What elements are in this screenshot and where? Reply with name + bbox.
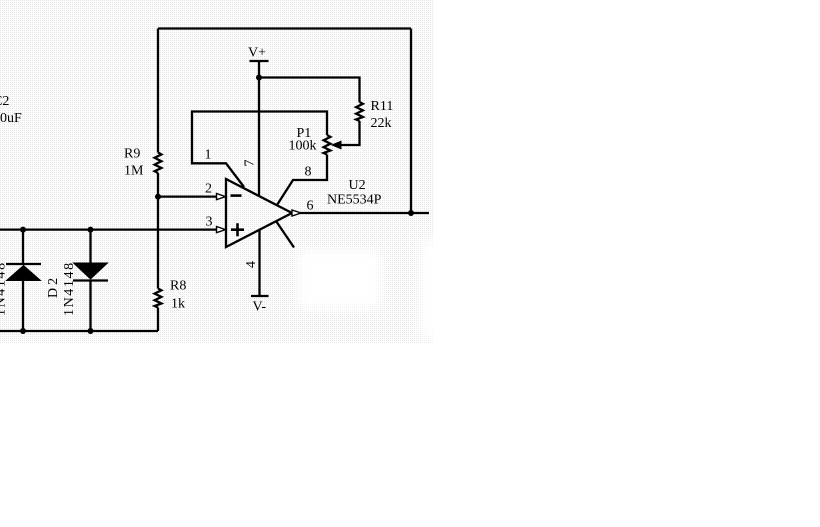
svg-text:8: 8 [305, 165, 312, 180]
svg-text:2: 2 [205, 182, 212, 197]
wire output net [300, 212, 429, 214]
svg-text:4: 4 [244, 261, 259, 268]
svg-text:V+: V+ [248, 46, 266, 61]
resistor R11 [356, 102, 363, 121]
wire top rail [158, 27, 411, 29]
resistor R8 [155, 289, 162, 308]
svg-text:100k: 100k [289, 139, 317, 154]
svg-text:7: 7 [243, 160, 258, 167]
svg-text:R9: R9 [124, 147, 140, 162]
svg-text:R8: R8 [170, 279, 186, 294]
op-amp minus sign [231, 194, 242, 197]
wire pin2 input [158, 195, 217, 197]
node bottom rail D2 [88, 328, 94, 334]
power V- symbol [251, 295, 269, 297]
arrowhead pin2 [217, 194, 226, 200]
svg-text:100uF: 100uF [0, 111, 22, 126]
op-amp plus sign [231, 223, 244, 236]
resistor R9 [155, 153, 162, 174]
wire R9 bottom lead [157, 173, 159, 197]
wire mid vertical [157, 197, 159, 289]
wire pin7 supply [258, 78, 260, 197]
svg-text:1N4148: 1N4148 [62, 261, 77, 316]
wire pin8 net [277, 155, 327, 206]
pin5 stub [276, 221, 294, 248]
svg-text:V-: V- [253, 300, 267, 315]
wire bottom rail [0, 330, 158, 332]
node output junction [408, 210, 414, 216]
svg-text:D2: D2 [46, 275, 61, 298]
svg-text:R11: R11 [371, 99, 394, 114]
op-amp U2 [226, 179, 292, 247]
diode D2 [73, 230, 108, 331]
wire pin3 rail [0, 228, 217, 230]
svg-text:U2: U2 [349, 178, 366, 193]
wiper arrow P1 [332, 141, 341, 148]
node V+ junction [256, 75, 262, 81]
wire R11 to wiper [341, 121, 360, 145]
node inverting input junction [155, 194, 161, 200]
wire pin1 net [192, 112, 327, 188]
node pin3 rail D1 [20, 227, 26, 233]
svg-text:NE5534P: NE5534P [327, 193, 382, 208]
svg-text:C2: C2 [0, 94, 9, 109]
diode D1 [6, 230, 41, 331]
wire V+ to R11 [259, 78, 360, 103]
svg-text:1N4148: 1N4148 [0, 261, 9, 316]
node bottom rail D1 [20, 328, 26, 334]
svg-text:1: 1 [205, 148, 212, 163]
svg-text:1M: 1M [124, 164, 144, 179]
potentiometer P1 [324, 135, 331, 155]
svg-text:3: 3 [206, 215, 213, 230]
arrowhead pin3 [217, 227, 226, 233]
svg-text:6: 6 [307, 199, 314, 214]
wire pin4 lead [258, 231, 260, 297]
arrowhead pin6 output [292, 210, 301, 216]
wire right rail [410, 29, 412, 214]
svg-text:1k: 1k [171, 297, 185, 312]
svg-text:22k: 22k [371, 116, 392, 131]
wire R9 top lead [157, 29, 159, 153]
power V+ symbol [250, 61, 269, 78]
wire R8 bottom lead [157, 308, 159, 332]
node pin3 rail D2 [88, 227, 94, 233]
